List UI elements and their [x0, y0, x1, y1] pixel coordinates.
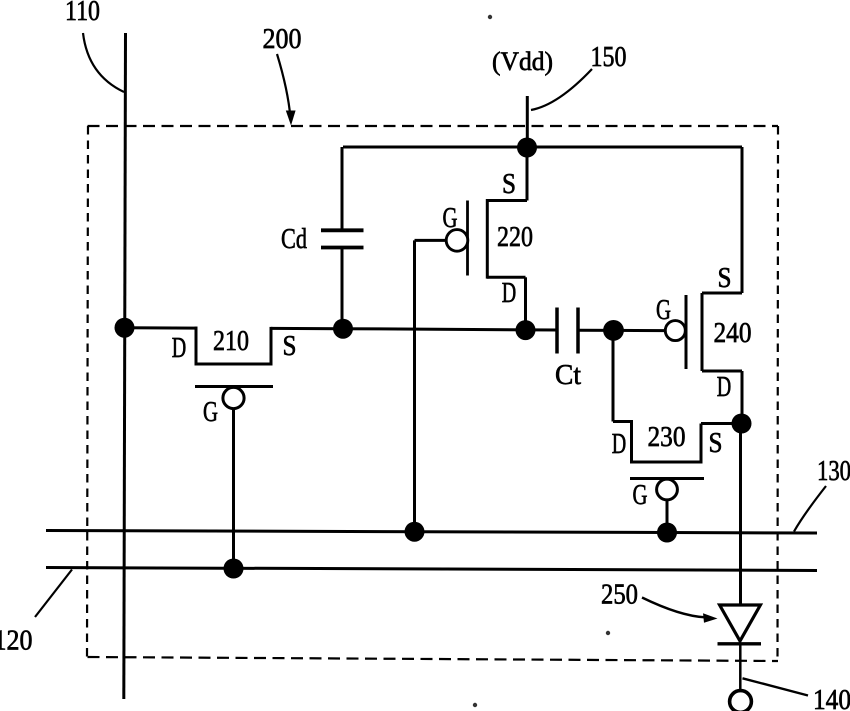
svg-text:110: 110: [65, 0, 100, 27]
scan line 130: [46, 531, 817, 534]
wire 230 source to node: [701, 422, 742, 425]
pixel boundary 200 dashed top: [88, 125, 779, 127]
node joining 240 drain and 230 source: [732, 414, 752, 434]
wire node down to OLED anode: [739, 424, 742, 607]
svg-text:S: S: [709, 428, 723, 459]
svg-text:S: S: [718, 263, 732, 294]
leader for 140: [743, 678, 809, 695]
terminal 140 open circle: [730, 691, 752, 711]
node scan line 1 with 230 gate wire: [657, 523, 677, 543]
top wire: [343, 146, 742, 149]
transistor 240 gate bar: [685, 295, 688, 369]
gate wire of 220 horizontal: [415, 239, 447, 242]
transistor 210 channel: [195, 363, 273, 366]
node at Vdd: [517, 138, 537, 158]
node at Cd bottom: [333, 319, 353, 339]
pixel boundary 200 dashed right: [776, 126, 779, 661]
wire node to transistor 210 drain: [125, 326, 198, 329]
svg-text:150: 150: [591, 42, 627, 73]
transistor 230 gate circle: [657, 479, 678, 500]
transistor 220 source step: [486, 199, 527, 202]
svg-text:210: 210: [213, 326, 249, 357]
data line 110 (vertical wire): [124, 33, 126, 699]
wire from Cd down to middle node: [341, 248, 344, 329]
OLED diode 250 cathode bar: [718, 642, 762, 645]
svg-text:D: D: [717, 372, 732, 403]
svg-text:D: D: [612, 429, 627, 460]
Vdd stub wire: [526, 96, 529, 148]
node scan line 2 with 210 gate wire: [224, 559, 244, 579]
leader for 130: [794, 486, 826, 532]
svg-text:G: G: [203, 397, 218, 428]
wire from Ct node down to 230 drain: [612, 330, 615, 421]
transistor 220 drain step: [487, 276, 526, 279]
node at 220 drain: [516, 320, 536, 340]
svg-text:Cd: Cd: [281, 223, 307, 255]
svg-text:220: 220: [497, 222, 533, 253]
leader for 120: [35, 570, 72, 618]
node scan line 1 with 220 gate wire: [405, 522, 425, 542]
wire from top wire down to Cd: [341, 147, 344, 232]
transistor 220 gate circle: [446, 230, 468, 252]
transistor 230 drain step: [630, 420, 633, 462]
svg-text:D: D: [502, 278, 517, 309]
transistor 220 gate bar: [466, 201, 469, 276]
transistor 240 source step: [702, 292, 742, 295]
wire Ct right plate to node: [578, 329, 614, 332]
wire node to 240 gate circle: [614, 329, 667, 332]
svg-text:Ct: Ct: [555, 359, 581, 391]
transistor 230 source step: [700, 424, 703, 463]
transistor 230 drain horizontal: [613, 420, 632, 423]
scan noise specks: [488, 15, 492, 19]
svg-text:G: G: [443, 203, 458, 234]
OLED diode 250 triangle: [720, 605, 761, 641]
svg-text:140: 140: [813, 685, 850, 711]
svg-text:G: G: [656, 295, 671, 326]
scan line 120: [46, 568, 817, 571]
transistor 220 drain vertical down to node: [524, 277, 527, 330]
pixel boundary 200 dashed bottom: [88, 657, 779, 661]
transistor 230 channel: [630, 461, 703, 464]
node on data line: [115, 318, 135, 338]
svg-text:240: 240: [714, 318, 752, 349]
svg-text:250: 250: [601, 580, 638, 611]
leader for 200 with arrowhead: [277, 54, 296, 126]
transistor 210 gate bar: [195, 385, 273, 388]
svg-text:D: D: [172, 333, 187, 364]
gate wire of 220 vertical down to scan line 1: [413, 240, 416, 531]
transistor 230 gate bar: [630, 477, 704, 480]
svg-text:G: G: [633, 480, 648, 511]
wire 210 source to Cd node: [271, 327, 343, 330]
arrow from 250 to diode: [642, 598, 718, 623]
gate wire of 210 down to scan line 2: [232, 408, 235, 569]
wire diode cathode down to terminal: [739, 644, 742, 691]
node after Ct: [603, 320, 624, 341]
capacitor Cd: [321, 230, 364, 247]
leader for 110: [83, 33, 124, 92]
transistor 240 drain step: [702, 370, 742, 373]
svg-text:130: 130: [817, 456, 850, 487]
leader for 150: [531, 69, 592, 110]
svg-text:S: S: [502, 169, 516, 200]
wire 240 drain down to node: [741, 371, 744, 424]
capacitor Ct: [557, 308, 578, 354]
svg-text:(Vdd): (Vdd): [492, 47, 553, 76]
svg-text:230: 230: [648, 422, 686, 453]
svg-text:200: 200: [263, 24, 302, 55]
svg-text:S: S: [283, 331, 297, 362]
gate wire of 230 down to scan line 1: [666, 500, 669, 533]
transistor 220 channel: [486, 199, 489, 279]
transistor 240 gate circle: [665, 321, 685, 341]
transistor 210 gate circle: [223, 387, 244, 408]
wire middle: Cd node to 220 drain node and Ct: [343, 329, 558, 330]
transistor 220 source vertical from Vdd node: [526, 147, 529, 201]
svg-text:120: 120: [0, 626, 33, 657]
pixel boundary 200 dashed left: [87, 126, 88, 657]
transistor 240 channel: [701, 293, 704, 371]
transistor 210 drain step: [195, 327, 198, 364]
wire top wire down to 240 source: [741, 147, 744, 293]
transistor 210 source step: [270, 327, 273, 364]
